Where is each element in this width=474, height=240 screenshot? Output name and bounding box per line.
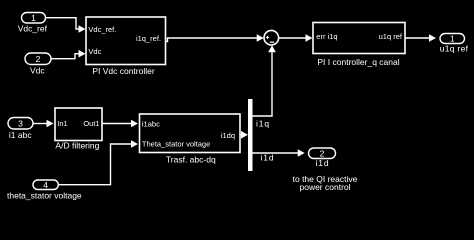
svg-text:A/D filtering: A/D filtering: [55, 141, 99, 151]
svg-text:PI I controller_q canal: PI I controller_q canal: [317, 57, 399, 67]
svg-text:power control: power control: [299, 182, 350, 192]
svg-text:Out1: Out1: [83, 119, 99, 128]
svg-text:Vdc_ref: Vdc_ref: [18, 24, 48, 34]
input port 4 theta_stator voltage: [33, 180, 58, 190]
svg-text:i1d: i1d: [315, 158, 329, 168]
output port 1 u1q ref: [440, 34, 465, 44]
svg-text:2: 2: [36, 54, 41, 64]
input port 3 i1abc: [8, 118, 33, 130]
demux: [248, 99, 253, 171]
svg-text:Vdc: Vdc: [30, 65, 45, 75]
wire PI I controller output to outport 1: [405, 34, 436, 42]
input port 2 Vdc: [25, 53, 51, 65]
wire demux i1q output to sum junction bottom input: [253, 45, 276, 116]
svg-text:i1abc: i1abc: [142, 120, 160, 129]
wire PI Vdc controller output to sum junction: [166, 34, 264, 42]
svg-text:Vdc: Vdc: [88, 47, 101, 56]
wire sum junction to PI I controller: [278, 34, 312, 42]
svg-text:i1q_ref.: i1q_ref.: [136, 34, 161, 43]
block PI Vdc controller: [86, 17, 166, 76]
wire A/D filtering output to Trasf abc-dq input 1: [102, 120, 138, 128]
svg-text:Trasf. abc-dq: Trasf. abc-dq: [166, 154, 216, 164]
block PI I controller_q canal: [313, 23, 405, 68]
svg-text:i1d: i1d: [261, 153, 275, 163]
wire port2 to PI Vdc controller Vdc input: [51, 50, 86, 59]
svg-text:In1: In1: [57, 119, 67, 128]
wire port4 to Trasf abc-dq input 2: [58, 140, 138, 185]
svg-text:u1q ref: u1q ref: [379, 32, 403, 41]
svg-text:i1dq: i1dq: [221, 131, 235, 140]
svg-text:Vdc_ref.: Vdc_ref.: [88, 25, 116, 34]
wire port3 to A/D filtering: [33, 120, 54, 128]
svg-text:PI Vdc controller: PI Vdc controller: [92, 66, 155, 76]
svg-text:1: 1: [31, 13, 36, 23]
svg-text:3: 3: [18, 118, 23, 128]
svg-text:i1q: i1q: [256, 119, 270, 129]
svg-text:theta_stator voltage: theta_stator voltage: [7, 191, 82, 201]
output port 2 i1d: [309, 148, 336, 159]
wire Trasf abc-dq output to demux: [240, 131, 248, 139]
wire port1 to PI Vdc controller Vdc_ref input: [46, 18, 86, 33]
input port 1 Vdc_ref: [22, 13, 46, 24]
svg-text:u1q ref: u1q ref: [440, 44, 469, 54]
sum junction: [264, 30, 279, 45]
svg-text:1: 1: [450, 34, 455, 44]
svg-text:i1 abc: i1 abc: [9, 130, 32, 140]
svg-text:Theta_stator voltage: Theta_stator voltage: [142, 140, 210, 149]
block A/D filtering: [55, 108, 102, 151]
wire demux i1d output to outport 2: [253, 149, 305, 157]
block Trasf. abc-dq: [140, 114, 241, 164]
caption to the QI reactive power control: [293, 174, 358, 192]
svg-text:4: 4: [43, 180, 48, 190]
svg-text:err i1q: err i1q: [316, 32, 337, 41]
